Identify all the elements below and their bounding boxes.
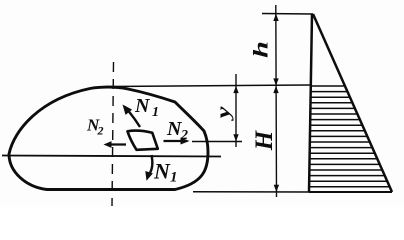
- force arrow N1 upper (up-left): [129, 111, 141, 127]
- pressure diagram hypotenuse: [313, 14, 392, 192]
- force arrow N1 lower (down): [150, 155, 152, 173]
- ground surface line (top of section to pressure wall): [105, 85, 310, 87]
- H top arrow: [273, 86, 278, 93]
- stressed element (curvilinear quad): [128, 131, 158, 150]
- element-depth reference line: [192, 141, 242, 143]
- svg-text:2: 2: [180, 128, 188, 143]
- dimension line h/H (vertical): [275, 5, 278, 197]
- force arrow N2 left: [109, 143, 126, 145]
- pressure wall left edge: [309, 14, 312, 192]
- svg-text:H: H: [251, 129, 278, 151]
- dimension line y (vertical): [235, 74, 237, 147]
- svg-text:h: h: [249, 41, 272, 58]
- svg-text:1: 1: [152, 105, 159, 120]
- tunnel cross-section outline: [9, 87, 208, 189]
- h bottom arrow: [273, 78, 278, 85]
- H bottom arrow: [274, 185, 279, 192]
- h top arrow: [273, 14, 278, 21]
- hatch lines of pressure diagram: [309, 86, 390, 187]
- pressure diagram bottom edge: [309, 191, 392, 193]
- top reference line (crown level): [262, 13, 313, 16]
- svg-text:1: 1: [170, 170, 178, 186]
- y bottom arrow: [233, 134, 238, 141]
- bottom reference line: [193, 191, 310, 193]
- horizontal centerline through section: [2, 156, 221, 157]
- svg-text:2: 2: [97, 124, 104, 138]
- svg-text:N: N: [153, 159, 171, 184]
- svg-text:N: N: [134, 95, 151, 117]
- vertical dashed centerline: [112, 62, 114, 206]
- force arrow N2 right: [164, 140, 185, 142]
- y top arrow: [233, 86, 238, 93]
